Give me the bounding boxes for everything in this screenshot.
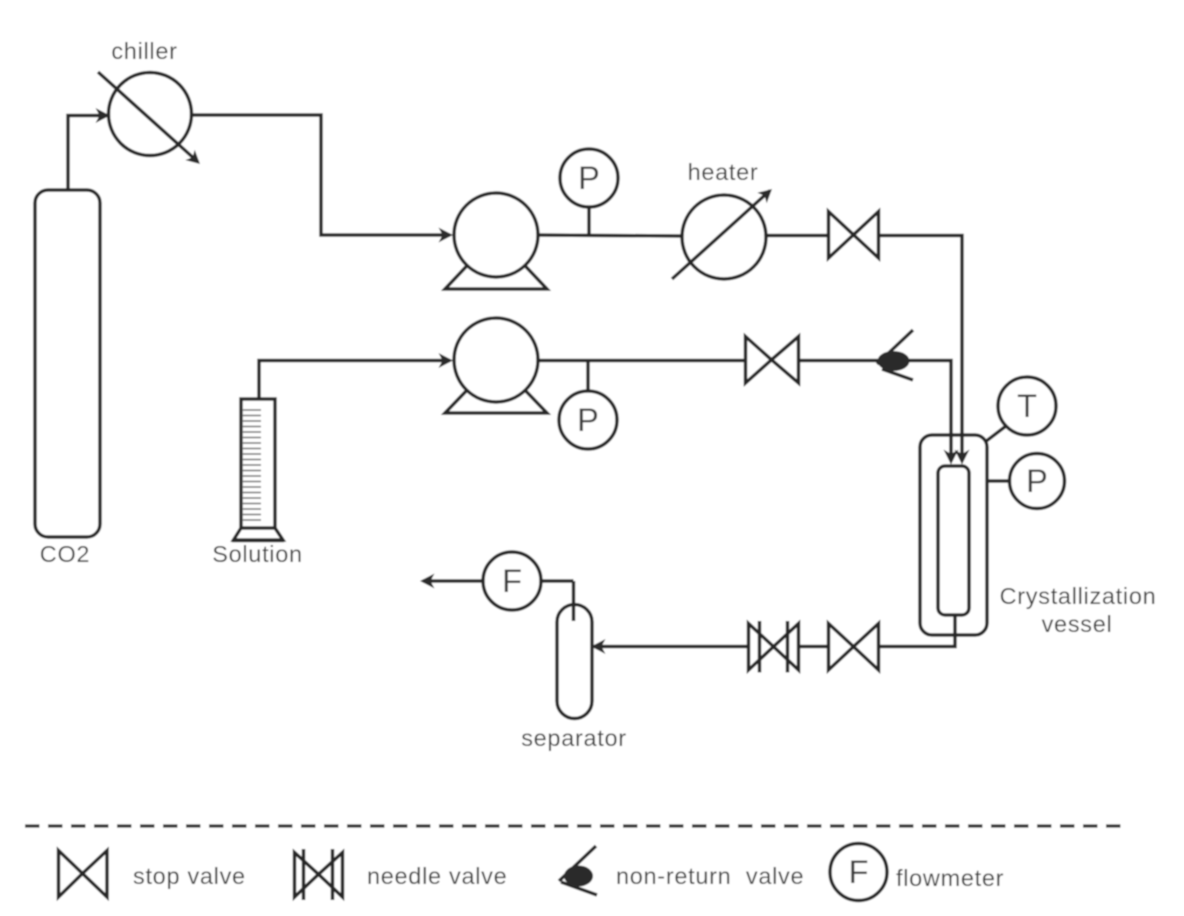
wire pump2 to stop valve V2 <box>538 359 745 363</box>
gauge P2 circle <box>559 391 617 449</box>
chiller diagonal arrow <box>98 72 198 162</box>
arrow into chiller <box>96 108 111 123</box>
wire separator to flowmeter <box>541 579 574 583</box>
legend needle valve bowtie <box>295 853 343 898</box>
crystallization vessel inner tube <box>938 466 969 615</box>
gauge P2 stem <box>586 360 590 391</box>
svg-text:F: F <box>502 563 522 599</box>
gauge P1 circle <box>560 149 618 207</box>
svg-text:P: P <box>577 402 599 438</box>
pump P1 base triangle <box>445 235 547 289</box>
non-return valve NRV1 upper arm <box>877 330 913 364</box>
separator vessel capsule <box>557 605 592 719</box>
wire needle valve to separator <box>594 645 749 649</box>
stop valve V2 <box>746 337 799 384</box>
svg-text:F: F <box>849 854 869 890</box>
pump P2 base triangle <box>445 360 547 413</box>
needle valve NV1 right tick <box>786 621 790 673</box>
gauge T circle <box>998 377 1056 435</box>
wire chiller to pump1 corner <box>192 115 451 235</box>
pump P1 circle <box>454 193 538 277</box>
stop valve V1 <box>829 212 879 259</box>
legend stop valve symbol <box>59 851 108 898</box>
wire valve V1 to vessel (down) <box>879 236 963 462</box>
pump P2 circle <box>454 318 538 402</box>
flowmeter outlet wire <box>423 579 483 583</box>
heater diagonal arrow <box>672 191 770 280</box>
gauge P1 stem <box>587 207 591 235</box>
legend flowmeter circle <box>830 844 887 901</box>
arrow into separator <box>591 639 606 654</box>
legend non-return valve upper arm <box>559 846 596 881</box>
wire heater to stop valve V1 <box>766 234 828 238</box>
svg-text:heater: heater <box>688 159 759 185</box>
svg-text:T: T <box>1017 388 1037 424</box>
gauge P3 connector <box>988 479 1009 483</box>
solution cylinder graduations <box>243 410 261 520</box>
gauge T connector <box>985 426 1006 442</box>
arrow heater diagonal tip <box>757 189 772 203</box>
legend non-return valve ball <box>564 866 593 887</box>
chiller circle C1 <box>109 73 192 156</box>
crystallization vessel outer shell <box>920 435 987 635</box>
svg-text:chiller: chiller <box>111 38 177 64</box>
legend needle valve left tick <box>302 849 306 900</box>
legend needle valve right tick <box>331 849 335 900</box>
wire solution to pump2 <box>259 361 450 400</box>
wire pump1 to heater <box>538 235 682 236</box>
svg-text:CO2: CO2 <box>40 541 90 567</box>
svg-text:needle valve: needle valve <box>367 863 507 889</box>
separator dip tube <box>572 581 576 621</box>
arrow into pump2 <box>439 353 454 368</box>
non-return valve NRV1 ball <box>878 351 910 371</box>
svg-text:P: P <box>1026 463 1048 499</box>
solution graduated cylinder body <box>241 399 275 528</box>
svg-text:separator: separator <box>521 725 627 751</box>
svg-text:P: P <box>578 160 600 196</box>
svg-text:Crystallization: Crystallization <box>1000 583 1157 609</box>
CO2 cylinder <box>35 190 100 537</box>
wire CO2 to chiller <box>68 116 107 191</box>
arrow flowmeter outlet <box>420 574 435 589</box>
svg-text:vessel: vessel <box>1042 611 1113 637</box>
solution cylinder base <box>234 528 284 540</box>
solution cylinder base bottom line <box>232 539 284 543</box>
svg-text:flowmeter: flowmeter <box>896 865 1004 891</box>
svg-text:stop valve: stop valve <box>133 863 246 889</box>
arrow vessel inlet right <box>955 450 970 465</box>
wire between stop valve V3 and needle valve NV1 <box>799 645 829 649</box>
non-return valve NRV1 lower arm <box>882 369 913 380</box>
stop valve V3 <box>829 624 879 671</box>
needle valve NV1 bowtie <box>749 624 799 671</box>
gauge P3 circle <box>1010 454 1065 509</box>
arrow into pump1 <box>439 228 454 243</box>
arrow vessel inlet left <box>944 450 959 465</box>
vessel drain wire to valves <box>880 615 955 647</box>
svg-text:Solution: Solution <box>212 541 303 567</box>
gauge letters <box>502 160 1048 890</box>
needle valve NV1 left tick <box>758 621 762 673</box>
svg-text:non-return valve: non-return valve <box>616 863 804 889</box>
wire valve V2 to vessel (down) <box>799 361 952 462</box>
arrowheads <box>96 108 970 654</box>
legend non-return valve lower arm <box>561 882 597 895</box>
flowmeter F1 circle <box>483 552 541 610</box>
heater circle H1 <box>682 195 766 279</box>
arrow chiller diagonal tip <box>185 150 200 164</box>
legend dashed line <box>25 824 1128 827</box>
